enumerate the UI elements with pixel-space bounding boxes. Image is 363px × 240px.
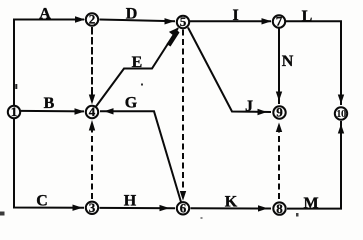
wire K: node6 to node8 [191, 207, 272, 209]
node 1 [8, 106, 20, 118]
svg-text:N: N [282, 53, 294, 70]
arrowhead K into node8 [258, 205, 268, 211]
wire I: node5 to node7 [190, 20, 271, 22]
svg-text:C: C [36, 193, 48, 210]
wire L: node7 right then down to node10 [286, 21, 341, 105]
arrowhead I into node7 [262, 18, 272, 24]
svg-text:H: H [124, 193, 137, 210]
arrowhead N into node9 [276, 92, 282, 102]
speck bump on left vertical [15, 84, 17, 89]
svg-text:7: 7 [276, 14, 283, 29]
label K [225, 193, 238, 210]
arrowhead dummy 3-4 into node4 [89, 120, 95, 131]
arrowhead dummy 2-4 into node4 [89, 95, 95, 105]
node 8 number [276, 201, 283, 216]
svg-text:1: 1 [11, 104, 18, 119]
node 3 [86, 202, 98, 214]
node 7 [273, 15, 285, 27]
arrowhead E into node5 [167, 28, 180, 47]
arrowhead M into node10 [338, 124, 344, 134]
wire G: node6 diagonal up then left to node4 [100, 111, 181, 202]
svg-text:G: G [125, 95, 138, 112]
node 10 [335, 107, 347, 119]
svg-text:J: J [245, 98, 253, 115]
svg-text:9: 9 [276, 105, 283, 120]
svg-text:L: L [302, 8, 313, 25]
svg-text:4: 4 [89, 104, 96, 119]
node 8 [273, 202, 285, 214]
svg-text:5: 5 [180, 14, 187, 29]
node 2 number [89, 12, 96, 27]
wire N: node7 down to node9 [278, 29, 280, 105]
label I [232, 7, 238, 24]
arrowhead G into node4 [104, 108, 114, 114]
label M [303, 195, 318, 212]
node 2 [86, 13, 98, 25]
node 6 number [180, 201, 187, 216]
dummy wire 5-6 dashed [182, 30, 184, 198]
node 4 number [89, 104, 96, 119]
arrowhead dummy 5-6 into node6 [180, 191, 186, 201]
speck dot near E path [141, 84, 143, 86]
node 7 number [276, 14, 283, 29]
node 3 number [89, 200, 96, 215]
arrowhead H into node6 [160, 205, 170, 211]
svg-text:2: 2 [89, 12, 96, 27]
dummy wire 8-9 dashed [278, 124, 280, 199]
wire A: node1 up left side then right to node2 [14, 20, 84, 106]
svg-text:D: D [126, 6, 138, 23]
wire D: node2 to node5 [100, 20, 176, 22]
arrowhead J into node9 [258, 109, 268, 115]
node 9 number [276, 105, 283, 120]
svg-text:I: I [232, 7, 238, 24]
svg-text:A: A [39, 6, 51, 23]
wire E: node4 diagonal-horizontal-diagonal up to node5 [96, 28, 178, 107]
node 5 number [180, 14, 187, 29]
node 4 [86, 106, 98, 118]
label J [245, 98, 253, 115]
node 1 number [11, 104, 18, 119]
label A [39, 6, 51, 23]
label N [282, 53, 294, 70]
label C [36, 193, 48, 210]
node 5 [177, 16, 189, 28]
arrowhead C into node3 [73, 205, 83, 211]
svg-text:3: 3 [89, 200, 96, 215]
svg-text:B: B [44, 95, 55, 112]
node 9 [273, 106, 285, 118]
label D [126, 6, 138, 23]
wire J: node5 diagonal down then right to node9 [188, 28, 271, 113]
svg-text:6: 6 [180, 201, 187, 216]
label L [302, 8, 313, 25]
label B [44, 95, 55, 112]
node 6 [177, 202, 189, 214]
svg-text:K: K [225, 193, 238, 210]
arrowhead B into node4 [75, 108, 85, 114]
speck tick below node8 line [296, 213, 299, 217]
speck smudge bottom-left edge [0, 212, 5, 216]
wire M: node8 right then up to node10 [287, 121, 341, 209]
svg-text:8: 8 [276, 201, 283, 216]
dummy wire 3-4 dashed [91, 124, 93, 199]
speck dot below bottom line [201, 217, 203, 219]
node 10 number [336, 109, 346, 120]
svg-text:E: E [132, 54, 143, 71]
svg-text:M: M [303, 195, 318, 212]
label G [125, 95, 138, 112]
arrowhead D into node5 [165, 18, 175, 24]
arrowhead dummy 8-9 into node9 [276, 123, 282, 133]
label H [124, 193, 137, 210]
svg-text:10: 10 [336, 109, 346, 120]
wire H: node3 to node6 [100, 207, 176, 209]
wire C: node1 down left side then right to node3 [14, 119, 84, 208]
arrowhead A into node2 [75, 16, 85, 22]
wire B: node1 to node4 [21, 110, 84, 113]
arrowhead L into node10 [338, 95, 344, 105]
label E [132, 54, 143, 71]
dummy wire 2-4 dashed [91, 27, 93, 100]
